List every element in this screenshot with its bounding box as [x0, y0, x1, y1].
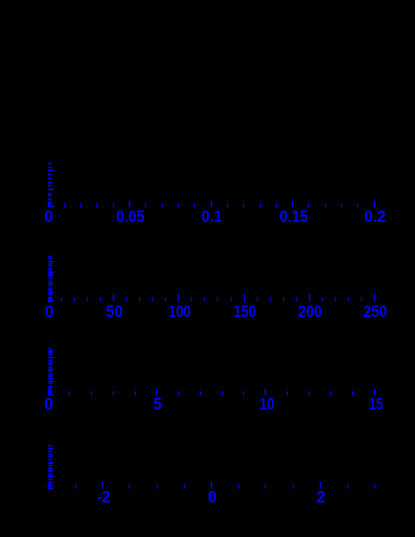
x-axis 1 (time 0-0.2) — [64, 201, 375, 208]
x-axis 2 (freq 0-250) — [61, 295, 375, 302]
y-axis labels subplot 2 — [48, 256, 54, 303]
svg-text:0: 0 — [44, 396, 53, 414]
svg-text:100: 100 — [168, 303, 191, 321]
svg-text:-2: -2 — [97, 489, 110, 507]
svg-text:0: 0 — [44, 208, 53, 226]
y-axis labels subplot 4 — [48, 445, 54, 490]
svg-text:150: 150 — [234, 303, 257, 321]
svg-text:0: 0 — [208, 489, 217, 507]
svg-text:0.1: 0.1 — [202, 208, 223, 226]
svg-text:2: 2 — [317, 489, 326, 507]
svg-text:0.05: 0.05 — [116, 208, 144, 226]
svg-text:50: 50 — [106, 303, 123, 321]
svg-text:0: 0 — [45, 303, 54, 321]
svg-text:0.2: 0.2 — [364, 208, 386, 226]
svg-text:10: 10 — [259, 396, 274, 414]
y-axis labels subplot 3 — [48, 348, 54, 396]
svg-text:250: 250 — [364, 303, 388, 321]
y-axis labels subplot 1 — [48, 163, 54, 208]
x-axis 3 (0-15) — [69, 389, 375, 395]
svg-text:200: 200 — [298, 303, 322, 321]
x-axis 4 (-2..2) — [75, 482, 375, 488]
svg-text:15: 15 — [369, 396, 383, 414]
svg-text:0.15: 0.15 — [279, 208, 308, 226]
svg-text:5: 5 — [153, 396, 162, 414]
